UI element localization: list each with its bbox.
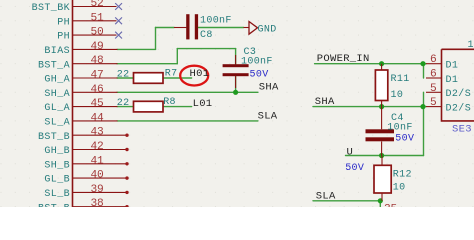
svg-text:GL_A: GL_A [44, 103, 70, 114]
svg-text:BST_BK: BST_BK [32, 3, 70, 14]
svg-text:44: 44 [90, 112, 104, 124]
svg-text:45: 45 [90, 98, 103, 110]
svg-text:51: 51 [90, 12, 104, 24]
svg-text:SL_A: SL_A [44, 118, 70, 129]
svg-text:C8: C8 [200, 30, 213, 41]
svg-text:GND: GND [258, 25, 277, 36]
svg-text:40: 40 [90, 170, 104, 182]
svg-text:SHA: SHA [315, 96, 335, 108]
svg-text:6: 6 [430, 54, 437, 66]
svg-text:46: 46 [90, 84, 103, 96]
svg-text:R11: R11 [391, 74, 410, 85]
svg-text:SH_A: SH_A [44, 89, 70, 100]
svg-text:41: 41 [90, 155, 104, 167]
svg-text:R8: R8 [163, 97, 176, 108]
svg-text:100nF: 100nF [200, 16, 232, 27]
svg-text:1: 1 [468, 40, 474, 51]
svg-text:PH: PH [57, 32, 70, 43]
svg-text:35: 35 [384, 204, 397, 208]
svg-text:10: 10 [393, 182, 406, 193]
svg-text:D1: D1 [446, 75, 459, 86]
svg-text:50V: 50V [395, 134, 414, 145]
svg-text:6: 6 [430, 69, 437, 81]
svg-text:50V: 50V [345, 163, 364, 174]
svg-text:SH_B: SH_B [44, 160, 70, 171]
svg-text:SLA: SLA [316, 190, 336, 202]
svg-text:10nF: 10nF [387, 123, 412, 134]
svg-text:D1: D1 [446, 61, 459, 72]
svg-text:48: 48 [90, 55, 103, 67]
svg-text:50: 50 [90, 27, 104, 39]
svg-text:52: 52 [90, 0, 103, 10]
svg-text:47: 47 [90, 70, 103, 82]
svg-text:100nF: 100nF [241, 57, 273, 68]
svg-text:22: 22 [117, 98, 130, 109]
svg-text:39: 39 [90, 184, 103, 196]
svg-text:PH: PH [57, 17, 70, 28]
svg-text:R7: R7 [165, 68, 178, 79]
svg-text:U: U [347, 147, 354, 159]
svg-text:D2/S: D2/S [446, 88, 472, 100]
svg-text:L01: L01 [193, 98, 213, 110]
svg-text:49: 49 [90, 41, 103, 53]
svg-text:10: 10 [391, 90, 404, 101]
svg-text:H01: H01 [190, 68, 210, 80]
svg-text:BIAS: BIAS [44, 46, 70, 57]
svg-text:38: 38 [90, 198, 103, 207]
svg-text:R12: R12 [393, 170, 412, 181]
svg-text:42: 42 [90, 141, 103, 153]
svg-text:50V: 50V [250, 70, 269, 81]
svg-text:POWER_IN: POWER_IN [317, 53, 370, 65]
svg-text:SL_B: SL_B [44, 189, 70, 200]
svg-text:GL_B: GL_B [44, 175, 70, 186]
svg-text:SE3: SE3 [452, 124, 472, 136]
svg-text:GH_A: GH_A [44, 75, 70, 86]
svg-text:GH_B: GH_B [44, 146, 70, 157]
svg-text:5: 5 [430, 83, 437, 95]
svg-text:BST_B: BST_B [38, 203, 70, 207]
svg-text:22: 22 [117, 70, 130, 81]
svg-text:BST_B: BST_B [38, 132, 70, 143]
svg-text:43: 43 [90, 127, 103, 139]
svg-text:D2/S: D2/S [446, 102, 472, 114]
svg-text:BST_A: BST_A [38, 60, 70, 71]
svg-text:SHA: SHA [259, 82, 279, 94]
svg-text:SLA: SLA [258, 110, 278, 122]
svg-text:5: 5 [430, 97, 437, 109]
